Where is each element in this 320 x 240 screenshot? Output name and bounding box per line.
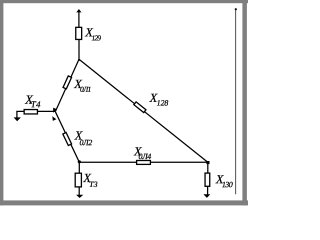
svg-text:0Л1: 0Л1 — [80, 85, 91, 94]
border frame — [0, 0, 248, 205]
label XT4 — [24, 93, 41, 110]
resistor X129 — [76, 27, 82, 39]
wire diagonal node A to node B — [55, 112, 79, 162]
node B junction dot — [78, 160, 81, 163]
resistor X0L2 — [63, 133, 72, 146]
arrowhead at node A from T — [53, 108, 57, 113]
label X128 — [149, 91, 169, 108]
svg-text:128: 128 — [157, 99, 169, 108]
arrow bottom right down — [203, 194, 210, 198]
resistor XT3 — [75, 173, 81, 187]
arrowhead at node A from B — [52, 116, 56, 121]
resistor XT4 — [24, 110, 37, 114]
wire node B down to XT3 — [78, 162, 80, 173]
node C junction dot — [206, 161, 209, 164]
label X0L2 — [74, 128, 93, 147]
wire X129 to node T — [78, 40, 80, 60]
resistor X130 — [205, 173, 210, 186]
arrow left down — [14, 117, 21, 121]
label X130 — [215, 172, 233, 189]
svg-text:Т4: Т4 — [31, 99, 41, 109]
svg-text:130: 130 — [222, 180, 233, 189]
svg-text:129: 129 — [92, 33, 102, 42]
svg-text:0Л4: 0Л4 — [139, 152, 152, 161]
wire diagonal node T to node A — [56, 59, 80, 111]
wire X130 to bottom arrow — [207, 187, 209, 195]
wire long diagonal node T to node C — [79, 59, 208, 162]
wire horizontal XT4 branch — [17, 111, 56, 118]
arrow top up — [76, 9, 81, 12]
resistor X0L4 — [137, 161, 151, 165]
label X0L4 — [133, 144, 151, 161]
wire top branch stem — [78, 11, 80, 28]
wire node C down to X130 — [207, 162, 209, 173]
resistor X128 — [134, 102, 146, 113]
wire XT3 to bottom arrow — [78, 187, 80, 195]
node T dot — [78, 59, 80, 61]
label X0L1 — [73, 77, 90, 94]
svg-text:0Л2: 0Л2 — [79, 138, 92, 147]
arrow bottom left down — [76, 195, 83, 198]
resistor X0L1 — [63, 76, 71, 89]
wire node B to node C horizontal — [79, 161, 208, 163]
label X129 — [84, 25, 101, 42]
label XT3 — [82, 171, 97, 189]
vertical reference line right — [235, 8, 237, 194]
svg-text:Т3: Т3 — [89, 180, 97, 189]
